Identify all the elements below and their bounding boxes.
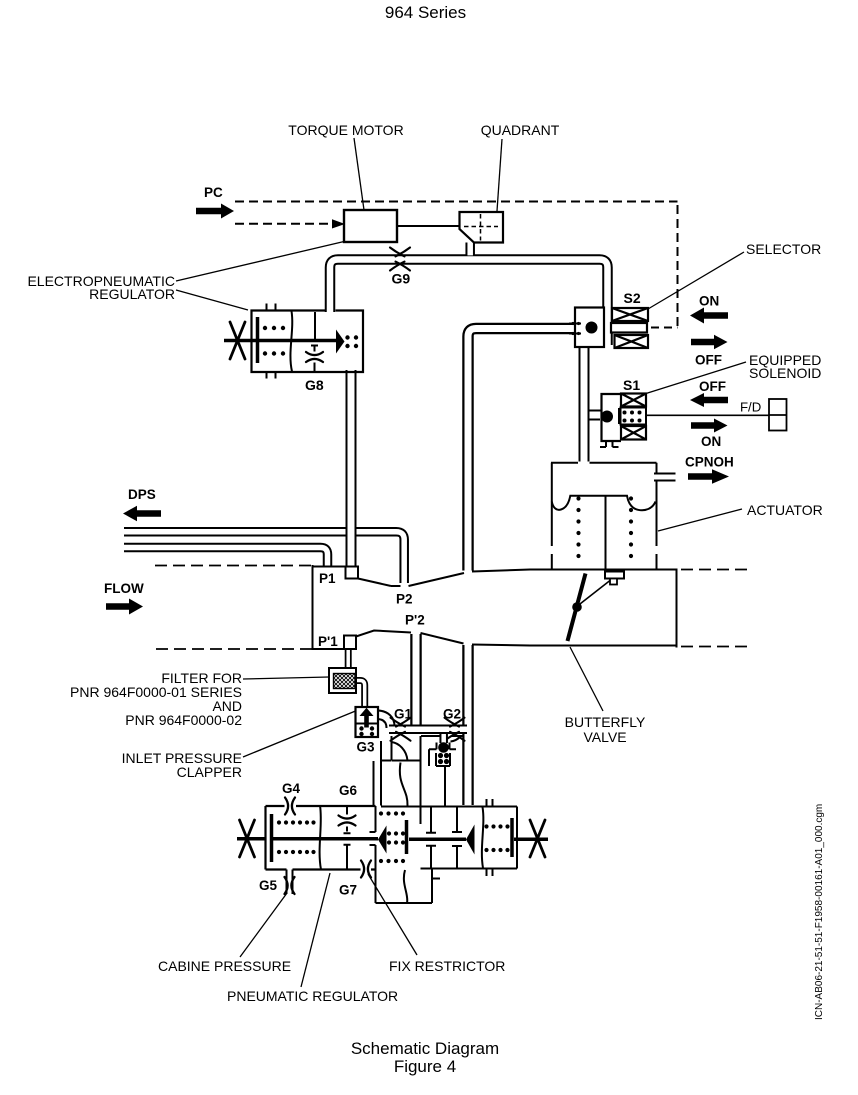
svg-text:S2: S2 xyxy=(624,290,641,306)
svg-text:OFF: OFF xyxy=(699,379,726,394)
svg-text:ACTUATOR: ACTUATOR xyxy=(747,502,823,518)
svg-text:FIX RESTRICTOR: FIX RESTRICTOR xyxy=(389,958,505,974)
svg-text:964 Series: 964 Series xyxy=(385,3,466,22)
svg-text:CABINE PRESSURE: CABINE PRESSURE xyxy=(158,958,291,974)
svg-text:ON: ON xyxy=(701,434,721,449)
svg-text:DPS: DPS xyxy=(128,487,156,502)
svg-text:P1: P1 xyxy=(319,571,336,586)
svg-text:SELECTOR: SELECTOR xyxy=(746,241,821,257)
svg-text:P'2: P'2 xyxy=(405,613,425,628)
svg-text:F/D: F/D xyxy=(740,400,761,415)
svg-text:G1: G1 xyxy=(394,707,413,722)
svg-text:S1: S1 xyxy=(623,377,640,393)
svg-text:G5: G5 xyxy=(259,878,278,893)
svg-text:PC: PC xyxy=(204,185,223,200)
svg-text:G9: G9 xyxy=(392,271,411,287)
svg-text:PNEUMATIC REGULATOR: PNEUMATIC REGULATOR xyxy=(227,988,398,1004)
svg-text:SOLENOID: SOLENOID xyxy=(749,365,821,381)
svg-text:G2: G2 xyxy=(443,707,461,722)
svg-text:BUTTERFLY: BUTTERFLY xyxy=(565,714,646,730)
svg-text:Figure 4: Figure 4 xyxy=(394,1057,456,1076)
svg-text:CLAPPER: CLAPPER xyxy=(177,764,242,780)
svg-text:ON: ON xyxy=(699,294,719,309)
svg-text:ICN-AB06-21-51-51-F1958-00161-: ICN-AB06-21-51-51-F1958-00161-A01_000.cg… xyxy=(814,804,825,1020)
svg-text:P'1: P'1 xyxy=(318,634,338,649)
svg-text:G6: G6 xyxy=(339,783,358,798)
svg-text:G3: G3 xyxy=(357,740,376,755)
svg-text:REGULATOR: REGULATOR xyxy=(89,286,175,302)
svg-text:FLOW: FLOW xyxy=(104,581,144,596)
svg-text:G7: G7 xyxy=(339,883,357,898)
svg-text:CPNOH: CPNOH xyxy=(685,455,734,470)
svg-text:G8: G8 xyxy=(305,377,324,393)
svg-text:Schematic Diagram: Schematic Diagram xyxy=(351,1039,499,1058)
svg-text:P2: P2 xyxy=(396,592,413,607)
svg-text:TORQUE MOTOR: TORQUE MOTOR xyxy=(288,122,403,138)
svg-text:G4: G4 xyxy=(282,781,301,796)
svg-text:VALVE: VALVE xyxy=(583,729,626,745)
svg-text:QUADRANT: QUADRANT xyxy=(481,122,560,138)
svg-text:OFF: OFF xyxy=(695,353,722,368)
svg-text:PNR 964F0000-02: PNR 964F0000-02 xyxy=(125,712,242,728)
